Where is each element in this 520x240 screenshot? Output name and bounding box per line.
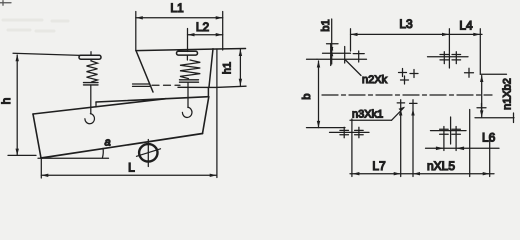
- svg-text:L1: L1: [170, 1, 184, 15]
- hole group top-middle: [428, 52, 469, 64]
- hanger rod right: [187, 82, 189, 107]
- vibrator vertical axis: [147, 140, 149, 167]
- hole group bottom-middle: [431, 117, 467, 151]
- spring hanger left (mount plate): [90, 52, 92, 56]
- funnel right edge: [209, 49, 213, 87]
- dimension n1Xb2: [475, 74, 514, 122]
- funnel flange hidden (dashes): [152, 84, 180, 86]
- dimension b: [301, 59, 345, 128]
- svg-text:L6: L6: [482, 131, 496, 145]
- svg-text:h1: h1: [222, 62, 234, 74]
- spring right (zigzag): [180, 60, 200, 79]
- dimension h1: [222, 49, 243, 86]
- hole mark right lower: [477, 103, 486, 112]
- trough deck rim: [96, 97, 208, 102]
- hole group top-left: [317, 44, 367, 66]
- free hole marks middle: [399, 69, 419, 85]
- trough left edge: [33, 114, 41, 158]
- hanger rod left: [90, 85, 92, 114]
- extension line hole row left: [399, 100, 402, 177]
- funnel flange left: [133, 84, 150, 86]
- svg-text:L2: L2: [196, 20, 210, 34]
- bottom chain dimensions L7 / nXL5: [350, 159, 494, 175]
- svg-text:b: b: [301, 93, 313, 99]
- trough right edge: [203, 97, 209, 134]
- vibrator circle: [139, 144, 157, 161]
- angle baseline: [38, 157, 109, 159]
- spring left (zigzag): [87, 61, 98, 82]
- extension line right mid: [469, 110, 471, 177]
- angle arc: [101, 148, 104, 158]
- hole mark right upper: [465, 68, 474, 77]
- scan corner mark: [0, 1, 11, 6]
- funnel left edge: [136, 51, 153, 92]
- hook left: [85, 114, 95, 124]
- dimension L1: [136, 1, 223, 51]
- funnel flange right: [178, 86, 246, 87]
- hook right: [182, 107, 192, 117]
- spring hanger right (mount plate): [177, 51, 198, 55]
- hole group bottom-left: [330, 119, 370, 177]
- extension line hole row right: [411, 100, 414, 177]
- dimension h: [0, 54, 36, 155]
- svg-text:n1Xb2: n1Xb2: [502, 78, 514, 110]
- dimension L2: [188, 20, 223, 52]
- scan ghost smudges: [3, 20, 68, 31]
- dimension L: [41, 49, 217, 178]
- svg-text:h: h: [0, 98, 13, 105]
- deck step: [95, 102, 97, 107]
- dimensions L3 / L4: [351, 17, 483, 74]
- trough top edge: [33, 99, 166, 114]
- centerline: [322, 94, 492, 96]
- svg-text:L7: L7: [372, 159, 386, 173]
- svg-text:n2Xk: n2Xk: [362, 74, 388, 86]
- label n2Xk: [346, 60, 388, 86]
- funnel top edge: [136, 49, 246, 51]
- svg-text:nXL5: nXL5: [427, 159, 455, 173]
- label n3Xk1: [350, 103, 417, 121]
- extension line right end: [489, 140, 491, 177]
- svg-text:L4: L4: [459, 19, 473, 33]
- dimension b1: [320, 19, 338, 64]
- left support frame line: [13, 53, 80, 55]
- trough bottom edge: [41, 134, 203, 159]
- svg-text:n3Xk1: n3Xk1: [352, 109, 383, 121]
- svg-text:L: L: [128, 161, 135, 175]
- dimension L6: [426, 131, 500, 151]
- svg-text:b1: b1: [320, 19, 332, 31]
- svg-text:a: a: [104, 137, 110, 149]
- vibrator slant axis: [137, 149, 161, 157]
- trough rim right vertical: [207, 88, 209, 97]
- svg-text:L3: L3: [399, 17, 413, 31]
